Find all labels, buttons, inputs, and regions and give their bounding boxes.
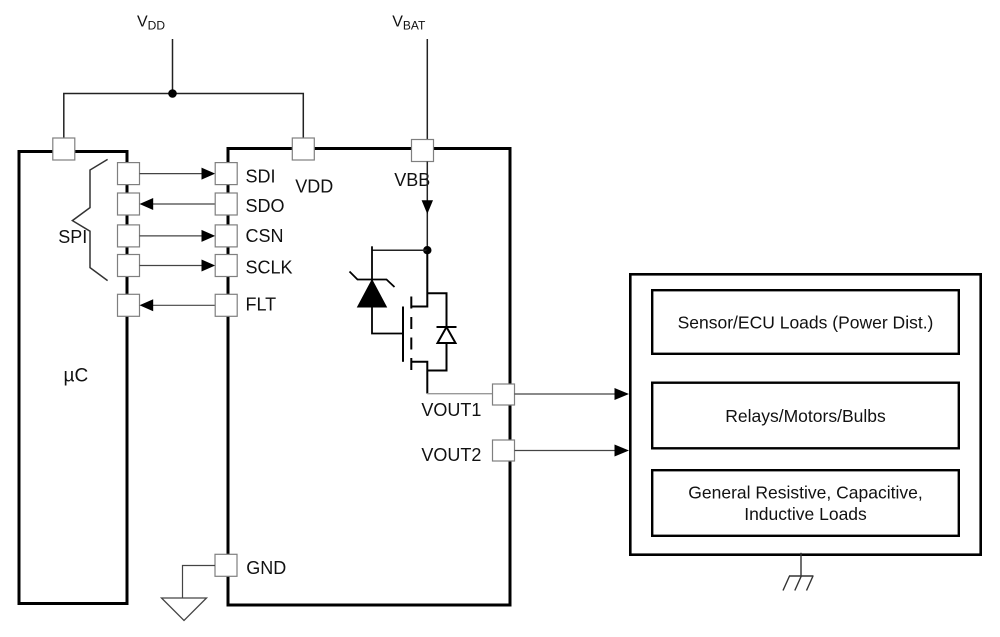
wire junction to zener (372, 249, 427, 251)
svg-text:SCLK: SCLK (246, 258, 293, 278)
wire VDD supply vertical drop (172, 39, 174, 94)
wire SDO with arrow into µC (140, 198, 216, 210)
svg-text:µC: µC (64, 366, 89, 387)
svg-text:VOUT2: VOUT2 (421, 445, 481, 465)
SPI bus brace (72, 159, 107, 280)
zener diode clamp (350, 246, 404, 333)
wire VBB internal drop (426, 162, 428, 251)
terminal square: µC SDO side (118, 193, 140, 215)
svg-text:FLT: FLT (246, 294, 277, 314)
svg-text:VBB: VBB (394, 170, 430, 190)
terminal square: µC CSN side (118, 225, 140, 247)
wire GND pin to ground symbol (183, 566, 216, 598)
wire source to VOUT1 pin (427, 393, 492, 395)
terminal square: IC SDI pin (215, 163, 237, 185)
wire FLT with arrow into µC (140, 299, 216, 311)
terminal square: µC SCLK side (118, 255, 140, 277)
svg-text:SDO: SDO (246, 196, 285, 216)
svg-text:Sensor/ECU Loads (Power Dist.): Sensor/ECU Loads (Power Dist.) (678, 313, 934, 333)
wire VOUT1 to loads with arrow (515, 388, 630, 400)
arrow current direction down on VBB wire (422, 200, 433, 214)
svg-text:General Resistive, Capacitive,: General Resistive, Capacitive, (688, 483, 922, 503)
svg-text:Relays/Motors/Bulbs: Relays/Motors/Bulbs (725, 406, 886, 426)
svg-text:VOUT1: VOUT1 (421, 400, 481, 420)
junction node drain (423, 246, 431, 254)
wire VOUT2 to loads with arrow (515, 445, 630, 457)
terminal square: IC GND pin (215, 554, 237, 576)
terminal square: µC FLT side (118, 294, 140, 316)
wire VBAT vertical into VBB pin (426, 39, 428, 140)
svg-text:SPI: SPI (58, 227, 87, 247)
terminal square: IC FLT pin (215, 294, 237, 316)
terminal square: IC SDO pin (215, 193, 237, 215)
body diode of Q1 (427, 293, 456, 370)
ground symbol (triangle) (162, 598, 207, 621)
terminal square: µC supply pin (53, 138, 75, 160)
power MOSFET Q1 (403, 250, 427, 393)
terminal square: µC SDI side (118, 163, 140, 185)
terminal square: IC VOUT1 pin (493, 384, 515, 405)
junction dot on VDD rail (168, 89, 177, 98)
wire CSN with arrow into IC (140, 230, 216, 242)
load block: Sensor/ECU Loads (Power Dist.) (652, 290, 959, 354)
chassis ground under loads box (783, 553, 814, 591)
smart high-side switch U1 block (228, 149, 510, 606)
load block: Relays/Motors/Bulbs (652, 383, 959, 449)
terminal square: IC VOUT2 pin (493, 440, 515, 461)
wire SCLK with arrow into IC (140, 260, 216, 272)
terminal square: IC SCLK pin (215, 255, 237, 277)
loads outer box (630, 274, 980, 554)
svg-text:GND: GND (246, 558, 286, 578)
terminal square: IC VBB pin (412, 140, 434, 162)
microcontroller U2 (µC) block (19, 152, 127, 604)
terminal square: IC VDD pin (292, 138, 314, 160)
svg-text:CSN: CSN (246, 226, 284, 246)
terminal square: IC CSN pin (215, 225, 237, 247)
wire VDD supply horizontal rail with drops to µC and IC (64, 94, 303, 140)
svg-text:Inductive Loads: Inductive Loads (744, 504, 867, 524)
wire SDI with arrow into IC (140, 168, 216, 180)
svg-text:VDD: VDD (295, 177, 333, 197)
svg-text:SDI: SDI (246, 166, 276, 186)
load block: General Resistive, Capacitive, Inductive Loads (652, 470, 959, 536)
